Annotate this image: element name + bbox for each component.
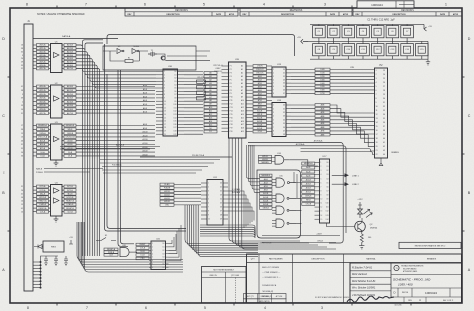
connector J1 pin numbers bbox=[21, 45, 23, 214]
svg-text:MATERIAL: MATERIAL bbox=[366, 257, 375, 260]
svg-text:AD4-B: AD4-B bbox=[67, 100, 74, 103]
svg-text:9: 9 bbox=[208, 215, 209, 217]
svg-text:A12-B: A12-B bbox=[164, 190, 170, 193]
svg-text:4: 4 bbox=[264, 306, 266, 310]
svg-text:DATE: DATE bbox=[330, 13, 336, 16]
svg-text:A15: A15 bbox=[241, 116, 244, 119]
svg-text:9: 9 bbox=[376, 102, 377, 104]
svg-text:APVD: APVD bbox=[343, 13, 349, 16]
svg-text:A10: A10 bbox=[241, 99, 244, 102]
svg-text:DESCRIPTION: DESCRIPTION bbox=[281, 14, 295, 16]
svg-text:D2: D2 bbox=[174, 78, 176, 80]
svg-text:AD0-B: AD0-B bbox=[67, 44, 74, 47]
svg-text:3: 3 bbox=[321, 306, 323, 310]
svg-text:PULSE T.B-A: PULSE T.B-A bbox=[192, 154, 205, 157]
svg-text:D8: D8 bbox=[327, 195, 329, 197]
svg-text:46: 46 bbox=[21, 140, 23, 142]
svg-text:A10-B: A10-B bbox=[257, 110, 263, 113]
wire bus U14 to labels bbox=[291, 105, 315, 135]
svg-text:A15-B: A15-B bbox=[164, 200, 170, 203]
svg-text:WE-B: WE-B bbox=[306, 200, 311, 202]
svg-text:RESET: RESET bbox=[140, 244, 147, 246]
svg-text:+LAST: +LAST bbox=[316, 233, 322, 236]
next assembly table bbox=[202, 267, 247, 303]
U14 interior pin names bbox=[273, 105, 285, 137]
svg-text:8: 8 bbox=[273, 93, 274, 95]
and gate U16A bbox=[275, 156, 284, 165]
svg-text:AD0-B: AD0-B bbox=[67, 85, 74, 88]
svg-text:2: 2 bbox=[164, 74, 165, 76]
svg-text:D8: D8 bbox=[283, 134, 285, 136]
svg-text:59: 59 bbox=[21, 105, 23, 107]
capacitor C14 bbox=[401, 44, 414, 56]
wire bundle corners center bbox=[185, 205, 258, 257]
svg-text:SEE LIST 1009425: SEE LIST 1009425 bbox=[262, 266, 280, 269]
svg-text:44: 44 bbox=[383, 154, 385, 156]
svg-text:U15: U15 bbox=[279, 176, 282, 178]
svg-text:D3: D3 bbox=[174, 81, 176, 83]
svg-text:1: 1 bbox=[208, 183, 209, 185]
svg-text:4: 4 bbox=[273, 79, 274, 81]
svg-text:READY-B: READY-B bbox=[66, 200, 75, 203]
svg-text:D8: D8 bbox=[174, 98, 176, 100]
svg-text:42: 42 bbox=[383, 146, 385, 148]
svg-text:19: 19 bbox=[164, 131, 166, 133]
svg-text:D2: D2 bbox=[220, 191, 222, 193]
decode outputs to labels bbox=[289, 172, 301, 223]
svg-text:38: 38 bbox=[21, 48, 23, 50]
svg-text:A/CRCA-A: A/CRCA-A bbox=[314, 139, 323, 142]
svg-text:AD5-A: AD5-A bbox=[40, 61, 47, 64]
svg-text:37: 37 bbox=[383, 126, 385, 128]
IC U41 bbox=[149, 239, 169, 270]
mid bus wires bbox=[100, 160, 220, 174]
svg-text:RESET-A: RESET-A bbox=[39, 207, 47, 210]
svg-text:P13: P13 bbox=[230, 107, 233, 109]
svg-text:2: 2 bbox=[376, 74, 377, 76]
svg-text:CRU-B: CRU-B bbox=[305, 204, 311, 206]
svg-text:PULSE.B-A: PULSE.B-A bbox=[112, 163, 122, 166]
svg-text:1055 / 400: 1055 / 400 bbox=[398, 283, 413, 287]
svg-text:5: 5 bbox=[164, 84, 165, 86]
svg-text:3: 3 bbox=[273, 112, 274, 114]
svg-text:74LS04: 74LS04 bbox=[133, 46, 139, 48]
svg-text:3: 3 bbox=[376, 78, 377, 80]
svg-text:4: 4 bbox=[273, 116, 274, 118]
U17 interior pin names bbox=[321, 162, 329, 221]
svg-text:+5V: +5V bbox=[297, 37, 301, 39]
svg-text:A18: A18 bbox=[241, 127, 244, 130]
capacitor C1 bbox=[313, 26, 326, 38]
svg-text:FLAG: FLAG bbox=[165, 183, 170, 186]
svg-text:AD3-B: AD3-B bbox=[67, 54, 74, 57]
svg-text:READY-A: READY-A bbox=[39, 200, 48, 203]
svg-text:D1: D1 bbox=[163, 247, 165, 249]
svg-text:A6B: A6B bbox=[321, 126, 325, 129]
capacitor C15 bbox=[416, 44, 429, 56]
svg-text:AD6-A: AD6-A bbox=[40, 64, 47, 67]
svg-text:8: 8 bbox=[208, 211, 209, 213]
svg-text:DATE: DATE bbox=[440, 13, 446, 16]
wire bundle bottom left bbox=[77, 222, 183, 272]
svg-text:3: 3 bbox=[208, 191, 209, 193]
svg-text:13: 13 bbox=[321, 211, 323, 213]
svg-text:4: 4 bbox=[376, 82, 377, 84]
wires U11 labels bbox=[174, 185, 201, 205]
svg-text:16: 16 bbox=[21, 45, 23, 47]
wire A/CRCA-A bbox=[248, 143, 343, 244]
svg-text:96214: 96214 bbox=[402, 292, 409, 294]
svg-text:A14-B: A14-B bbox=[68, 143, 74, 146]
svg-text:5: 5 bbox=[273, 119, 274, 121]
capacitor C5 bbox=[371, 26, 384, 38]
svg-text:A3: A3 bbox=[209, 82, 211, 85]
svg-text:A16: A16 bbox=[241, 120, 244, 123]
svg-text:D0: D0 bbox=[209, 128, 211, 130]
U17 input label boxes bbox=[302, 162, 315, 206]
svg-text:CRUCLK-A: CRUCLK-A bbox=[38, 136, 48, 139]
svg-text:D0: D0 bbox=[163, 243, 165, 245]
wire A/CRDA-A bbox=[248, 146, 346, 233]
svg-text:MEMEN-A: MEMEN-A bbox=[38, 124, 47, 127]
wire bus U2 outputs bbox=[76, 87, 155, 114]
svg-text:LOAD-B: LOAD-B bbox=[67, 203, 74, 206]
svg-text:D3: D3 bbox=[327, 174, 329, 176]
svg-text:P2: P2 bbox=[230, 69, 232, 71]
revision table strip 3 bbox=[353, 8, 462, 16]
svg-text:Robt Jackson: Robt Jackson bbox=[352, 273, 368, 276]
capacitor C4 bbox=[357, 26, 370, 38]
LED CR3 bbox=[358, 205, 363, 218]
svg-text:D17: D17 bbox=[174, 127, 177, 129]
svg-text:41: 41 bbox=[21, 193, 23, 195]
svg-text:A12-B: A12-B bbox=[143, 138, 149, 141]
svg-text:13: 13 bbox=[164, 111, 166, 113]
U2 input labels bbox=[37, 85, 49, 115]
svg-text:C1 THRU C12 ARE .1µF: C1 THRU C12 ARE .1µF bbox=[367, 19, 395, 22]
svg-text:P8: P8 bbox=[230, 90, 232, 92]
svg-text:REVISIONS: REVISIONS bbox=[290, 10, 303, 12]
title block frame bbox=[350, 263, 462, 303]
svg-text:D4: D4 bbox=[174, 84, 176, 86]
svg-text:23: 23 bbox=[383, 70, 385, 72]
drawing number box top bbox=[357, 1, 414, 8]
staircase bus to P2 lower bbox=[330, 105, 375, 147]
svg-text:31: 31 bbox=[21, 186, 23, 188]
svg-text:6: 6 bbox=[208, 203, 209, 205]
svg-text:A11-B: A11-B bbox=[257, 113, 263, 116]
svg-text:CRU-B: CRU-B bbox=[317, 241, 323, 243]
svg-text:D5: D5 bbox=[174, 88, 176, 90]
wire A/DCB-A bbox=[60, 147, 160, 150]
svg-text:CLK-B: CLK-B bbox=[140, 248, 146, 250]
svg-text:APVD: APVD bbox=[229, 13, 235, 16]
svg-text:17: 17 bbox=[376, 134, 378, 136]
svg-text:D3B: D3B bbox=[321, 79, 326, 81]
wire DAT.B-A from J1 bbox=[33, 38, 118, 40]
svg-text:D2: D2 bbox=[283, 112, 285, 114]
svg-text:A13-B: A13-B bbox=[164, 193, 170, 196]
svg-text:TEXAS INSTRUMENTS: TEXAS INSTRUMENTS bbox=[401, 265, 424, 268]
revision info box bbox=[399, 242, 461, 248]
oscillator enclosure bbox=[103, 46, 196, 70]
IC U11 bbox=[201, 177, 228, 225]
svg-text:R1: R1 bbox=[128, 58, 130, 60]
svg-text:A10: A10 bbox=[209, 106, 212, 109]
svg-text:D14: D14 bbox=[174, 117, 177, 119]
svg-text:A12-B: A12-B bbox=[257, 117, 263, 120]
svg-text:DBIN-B: DBIN-B bbox=[67, 133, 74, 135]
svg-text:9: 9 bbox=[273, 134, 274, 136]
svg-text:D0: D0 bbox=[174, 71, 176, 73]
decode enclosure bbox=[257, 170, 301, 238]
svg-text:A1: A1 bbox=[241, 68, 243, 71]
svg-text:PLAGE: PLAGE bbox=[164, 187, 171, 190]
svg-text:A/DCB-A: A/DCB-A bbox=[116, 143, 125, 146]
title block divider bbox=[391, 274, 462, 276]
svg-text:D0: D0 bbox=[283, 105, 285, 107]
svg-text:NEXT HIGHER ASSEMBLY: NEXT HIGHER ASSEMBLY bbox=[213, 269, 235, 272]
zone letters right bbox=[468, 37, 471, 272]
svg-text:A14: A14 bbox=[241, 113, 244, 116]
svg-text:54: 54 bbox=[21, 152, 23, 154]
svg-text:1: 1 bbox=[376, 70, 377, 72]
svg-text:INT2-B: INT2-B bbox=[67, 190, 73, 192]
svg-text:J2B: J2B bbox=[350, 67, 354, 69]
svg-text:A15-B: A15-B bbox=[306, 191, 312, 194]
qty cells bbox=[244, 294, 287, 303]
svg-text:D4: D4 bbox=[283, 83, 285, 85]
svg-text:D6B: D6B bbox=[321, 90, 326, 92]
svg-text:A13-B: A13-B bbox=[68, 139, 74, 142]
svg-text:6: 6 bbox=[273, 86, 274, 88]
svg-text:SH 1 OF 2: SH 1 OF 2 bbox=[443, 300, 454, 302]
svg-text:A15-B: A15-B bbox=[143, 150, 149, 153]
svg-text:APVD: APVD bbox=[453, 13, 459, 16]
svg-text:RESET-B: RESET-B bbox=[66, 208, 74, 210]
nand gate U15C bbox=[276, 206, 284, 215]
U3 output labels bbox=[64, 124, 76, 158]
svg-text:D6: D6 bbox=[283, 90, 285, 92]
buffer U3 bbox=[49, 122, 64, 160]
U40 input labels bbox=[104, 248, 118, 257]
svg-text:D: D bbox=[2, 37, 5, 41]
capacitor C12 bbox=[371, 44, 384, 56]
svg-text:5: 5 bbox=[203, 3, 205, 7]
U4 output labels bbox=[64, 185, 76, 213]
svg-text:19: 19 bbox=[376, 142, 378, 144]
+5V arrow regulator bbox=[69, 240, 73, 244]
svg-text:D10: D10 bbox=[326, 203, 329, 205]
svg-text:6: 6 bbox=[144, 3, 146, 7]
capacitor C9 bbox=[327, 44, 340, 56]
svg-text:AD2-B: AD2-B bbox=[67, 93, 74, 96]
svg-text:A13-B: A13-B bbox=[143, 142, 149, 145]
svg-text:MEMEN-B: MEMEN-B bbox=[66, 125, 75, 127]
svg-text:5: 5 bbox=[22, 94, 23, 96]
svg-text:ONLY: ONLY bbox=[215, 68, 221, 70]
svg-text:32: 32 bbox=[383, 106, 385, 108]
svg-text:10: 10 bbox=[21, 211, 23, 213]
svg-text:AD7-B: AD7-B bbox=[67, 112, 74, 115]
svg-text:D12: D12 bbox=[174, 111, 177, 113]
svg-text:DAT.B-A: DAT.B-A bbox=[62, 35, 71, 38]
svg-text:D5: D5 bbox=[283, 86, 285, 88]
svg-text:A13: A13 bbox=[209, 117, 212, 120]
svg-text:P3: P3 bbox=[230, 73, 232, 75]
svg-text:DBIN-B: DBIN-B bbox=[305, 196, 312, 198]
svg-text:C: C bbox=[468, 114, 471, 118]
svg-text:D5: D5 bbox=[283, 123, 285, 125]
inverter U5B bbox=[132, 49, 139, 54]
svg-text:Robt Stickler 8-12-81: Robt Stickler 8-12-81 bbox=[352, 280, 376, 283]
resistor pack R2 bbox=[197, 77, 206, 100]
svg-text:11: 11 bbox=[376, 110, 378, 112]
svg-text:D7B: D7B bbox=[321, 93, 326, 95]
svg-text:10: 10 bbox=[376, 106, 378, 108]
U1 output labels bbox=[64, 44, 76, 71]
svg-text:24: 24 bbox=[383, 74, 385, 76]
svg-text:DESCRIPTION: DESCRIPTION bbox=[393, 14, 407, 16]
svg-text:1: 1 bbox=[273, 69, 274, 71]
svg-text:1: 1 bbox=[273, 105, 274, 107]
svg-text:D6: D6 bbox=[174, 91, 176, 93]
svg-text:3: 3 bbox=[164, 78, 165, 80]
U17 output to transistor base bbox=[327, 223, 355, 227]
ground symbol cap array bbox=[426, 59, 430, 65]
svg-text:D13: D13 bbox=[326, 215, 329, 217]
U13 interior pin names bbox=[273, 69, 285, 95]
U41 input labels bbox=[136, 243, 149, 260]
svg-text:AD3-A: AD3-A bbox=[40, 54, 47, 57]
svg-text:A19: A19 bbox=[241, 130, 244, 133]
svg-text:41: 41 bbox=[21, 86, 23, 88]
svg-text:D13: D13 bbox=[174, 114, 177, 116]
svg-text:D4B: D4B bbox=[321, 83, 326, 85]
svg-text:27: 27 bbox=[383, 86, 385, 88]
svg-text:D5: D5 bbox=[327, 182, 329, 184]
svg-text:10: 10 bbox=[208, 219, 210, 221]
svg-text:A6: A6 bbox=[209, 92, 211, 95]
svg-text:5: 5 bbox=[273, 83, 274, 85]
svg-text:8: 8 bbox=[26, 3, 28, 7]
transistor collector wire bbox=[361, 218, 363, 222]
svg-text:14: 14 bbox=[164, 114, 166, 116]
capacitor C11 bbox=[357, 44, 370, 56]
svg-text:4: 4 bbox=[263, 3, 265, 7]
svg-text:10.5.81: 10.5.81 bbox=[394, 305, 402, 307]
svg-text:41: 41 bbox=[21, 208, 23, 210]
svg-text:P17: P17 bbox=[230, 121, 233, 123]
svg-text:A2: A2 bbox=[241, 72, 243, 75]
svg-text:AD1-A: AD1-A bbox=[40, 47, 47, 50]
svg-text:A0: A0 bbox=[241, 65, 243, 68]
svg-text:D1: D1 bbox=[327, 166, 329, 168]
wire routing loop outer bbox=[107, 35, 295, 56]
svg-text:56: 56 bbox=[21, 197, 23, 199]
inverter U5A bbox=[117, 49, 124, 54]
voltage regulator VR1 bbox=[43, 241, 64, 252]
svg-text:1: 1 bbox=[22, 101, 23, 103]
svg-text:D4: D4 bbox=[220, 199, 222, 201]
drawing title bbox=[393, 278, 431, 287]
rev and sheet row bbox=[404, 297, 454, 303]
svg-text:7: 7 bbox=[273, 127, 274, 129]
svg-text:REG: REG bbox=[51, 247, 56, 249]
svg-text:— PWB 1009420 —: — PWB 1009420 — bbox=[261, 271, 281, 274]
CPU input label boxes bbox=[204, 72, 217, 134]
svg-text:2: 2 bbox=[208, 187, 209, 189]
connector J1 lower pin stubs bbox=[33, 256, 58, 288]
svg-text:A4: A4 bbox=[241, 78, 243, 81]
svg-text:REMARKS: REMARKS bbox=[427, 257, 437, 260]
svg-text:SPARES: SPARES bbox=[391, 151, 399, 154]
ground below Q2 bbox=[359, 243, 364, 249]
svg-text:2: 2 bbox=[273, 73, 274, 75]
svg-text:D18: D18 bbox=[174, 131, 177, 133]
svg-text:3: 3 bbox=[324, 3, 326, 7]
svg-text:36: 36 bbox=[21, 129, 23, 131]
svg-text:AD6-B: AD6-B bbox=[67, 108, 74, 111]
wire and gate to U17 bbox=[290, 160, 318, 166]
ground below P2 bbox=[379, 158, 383, 166]
svg-text:A14: A14 bbox=[209, 120, 212, 123]
right bus label boxes upper bbox=[315, 68, 330, 95]
svg-text:AD0-A: AD0-A bbox=[40, 44, 47, 47]
svg-text:A9: A9 bbox=[241, 96, 243, 99]
svg-text:35: 35 bbox=[21, 148, 23, 150]
svg-text:7: 7 bbox=[376, 94, 377, 96]
svg-text:D9: D9 bbox=[220, 219, 222, 221]
svg-text:10: 10 bbox=[164, 101, 166, 103]
svg-text:AD5-B: AD5-B bbox=[67, 61, 74, 64]
svg-text:33: 33 bbox=[383, 110, 385, 112]
svg-text:MEMEN-B: MEMEN-B bbox=[262, 175, 271, 177]
svg-text:AD2-A: AD2-A bbox=[40, 93, 47, 96]
svg-text:A5B: A5B bbox=[321, 122, 325, 125]
svg-text:13: 13 bbox=[376, 118, 378, 120]
svg-text:A9: A9 bbox=[209, 103, 211, 106]
svg-text:D2: D2 bbox=[163, 250, 165, 252]
svg-text:34: 34 bbox=[383, 114, 385, 116]
wires CPU labels to U13 U14 bbox=[267, 66, 273, 132]
svg-text:AD0-A: AD0-A bbox=[40, 85, 47, 88]
capacitor C3 bbox=[342, 26, 355, 38]
parts list table bbox=[247, 254, 462, 303]
svg-text:CRUOUT: CRUOUT bbox=[256, 69, 265, 71]
svg-text:28: 28 bbox=[383, 90, 385, 92]
svg-text:NEXT USE: NEXT USE bbox=[261, 296, 268, 298]
approval signature scribble bbox=[347, 296, 394, 302]
CPU output label boxes bbox=[253, 65, 267, 134]
svg-text:CLK-B: CLK-B bbox=[67, 211, 73, 213]
svg-text:5: 5 bbox=[204, 306, 206, 310]
svg-text:D0B: D0B bbox=[321, 69, 326, 71]
svg-text:D: D bbox=[468, 37, 471, 41]
svg-text:WE-B: WE-B bbox=[68, 129, 73, 131]
svg-text:SCHEMATIC - PROG. JAD: SCHEMATIC - PROG. JAD bbox=[393, 278, 431, 282]
svg-text:A7: A7 bbox=[209, 96, 211, 99]
svg-text:13: 13 bbox=[21, 137, 23, 139]
svg-text:560: 560 bbox=[368, 237, 371, 239]
svg-text:AD2-B: AD2-B bbox=[67, 50, 74, 53]
svg-text:A11-B: A11-B bbox=[143, 134, 149, 137]
svg-text:A13-A: A13-A bbox=[40, 139, 46, 142]
svg-text:P20: P20 bbox=[230, 131, 233, 133]
svg-text:D10: D10 bbox=[174, 104, 177, 106]
svg-text:— SCHEM REF 2 —: — SCHEM REF 2 — bbox=[261, 277, 282, 279]
capacitor C7 bbox=[401, 26, 414, 38]
